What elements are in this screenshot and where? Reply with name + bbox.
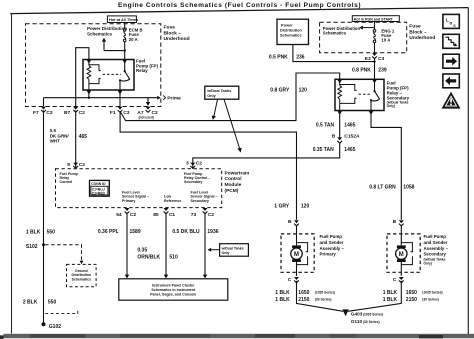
wire fuse to E3 connector [374, 43, 376, 53]
svg-text:9: 9 [67, 162, 70, 168]
svg-text:Only: Only [222, 251, 230, 255]
label Power Distribution Schematics (right ref) [323, 26, 361, 36]
callout arrow to GRY wire [214, 99, 218, 117]
svg-text:2150: 2150 [406, 297, 417, 303]
connector B C152A [337, 137, 342, 143]
svg-text:1465: 1465 [344, 147, 355, 153]
svg-text:0.5 DK BLU: 0.5 DK BLU [172, 229, 200, 235]
label 0.5 DK GRN/WHT [50, 128, 70, 143]
wire pin80 to cluster (0.35 ORN/BLK 510) [165, 213, 167, 276]
svg-text:0.35 TAN: 0.35 TAN [313, 147, 334, 153]
wire: Hot-at-all-times feed to ECM B fuse [124, 23, 126, 30]
arrow up to Power Distribution Schematics [103, 41, 105, 51]
fuel pump and sender assembly primary (dashed enclosure) [281, 234, 314, 272]
svg-text:Reference: Reference [164, 199, 181, 203]
w/Dual Tanks Only callout box [205, 86, 239, 99]
svg-text:CONN ID: CONN ID [91, 182, 106, 186]
PCM label Fuel Pump Relay Control - Secondary [184, 172, 210, 184]
wire relay2 switch to secondary pump (0.8 LT GRN 1058) [371, 111, 401, 220]
svg-text:Fuel Pump: Fuel Pump [320, 234, 343, 239]
wire: branch to power distribution arrow [104, 50, 125, 52]
relay2 switch contacts [371, 79, 380, 110]
svg-text:Fuel Pump: Fuel Pump [424, 234, 447, 239]
svg-text:Block –: Block – [409, 29, 427, 35]
toolbar icon: warning triangle [442, 92, 461, 109]
svg-text:(30 Series): (30 Series) [422, 298, 439, 302]
label Fuel Pump (FP) Relay [136, 58, 158, 73]
svg-text:Powertrain: Powertrain [225, 170, 250, 176]
svg-text:0.8 LT GRN: 0.8 LT GRN [369, 185, 396, 191]
label ENG 1 Fuse 10 A [381, 28, 395, 42]
label Hot in RUN and START [352, 16, 399, 22]
svg-text:Control: Control [60, 180, 73, 184]
label Hot at All Times [107, 16, 138, 23]
bottom scroll band [4, 334, 474, 338]
svg-text:Relay: Relay [136, 68, 148, 73]
svg-text:1 BLK: 1 BLK [383, 297, 398, 303]
label Fuel Pump (FP) Relay - Secondary [387, 81, 410, 101]
svg-text:C2=RED: C2=RED [92, 192, 106, 196]
svg-text:Only: Only [207, 94, 216, 98]
svg-text:Secondary: Secondary [424, 252, 447, 257]
svg-text:1589: 1589 [130, 229, 141, 235]
node Prime [163, 96, 165, 100]
svg-text:Only): Only) [387, 104, 395, 108]
PCM label Fuel Pump Relay Control [60, 172, 79, 184]
w/Dual Tanks Only callout (pin 73) [220, 244, 249, 257]
svg-text:3: 3 [186, 161, 189, 167]
svg-text:Hot in RUN and START: Hot in RUN and START [354, 17, 394, 21]
svg-text:Assembly –: Assembly – [320, 246, 345, 251]
svg-text:C3: C3 [378, 56, 385, 62]
svg-text:(30 Series): (30 Series) [315, 298, 332, 302]
wire primary pump to ground [297, 281, 344, 312]
label Fuel Pump and Sender Assembly - Primary [320, 234, 345, 256]
svg-text:0.35: 0.35 [137, 248, 147, 254]
PCM label Fuel Level Sensor Signal - Secondary [191, 190, 218, 202]
connector F7 C2 [41, 107, 46, 113]
connector A7 C2 (not used) [146, 107, 151, 113]
connector F1 C3 [118, 107, 123, 113]
ground G102 [42, 322, 46, 326]
motor M2 [397, 245, 406, 248]
relay pin arrows (bottom) [87, 91, 92, 95]
wire F1 branch to primary pump (1 GRY 120) [120, 111, 296, 219]
PCM powertrain control module (dashed enclosure) [56, 169, 222, 208]
svg-text:1 BLK: 1 BLK [275, 290, 290, 296]
svg-text:Schematics: Schematics [87, 31, 113, 36]
svg-text:239: 239 [378, 68, 387, 74]
wire B7 wrap: coil pin up over left side down to B7 [76, 48, 89, 107]
svg-text:(30 Series): (30 Series) [363, 320, 380, 324]
svg-text:1650: 1650 [298, 290, 309, 296]
svg-text:(1035 Series): (1035 Series) [315, 291, 335, 295]
connector pin 9 C2 [73, 163, 78, 169]
svg-text:G403: G403 [351, 312, 363, 317]
svg-text:Panel, Gages, and Console: Panel, Gages, and Console [150, 292, 196, 296]
wire into pump M2 [400, 225, 402, 246]
wire pin54 to cluster (0.36 PPL 1589) [126, 213, 128, 276]
wire switch bottom to F1 [119, 90, 121, 106]
svg-text:10 A: 10 A [381, 38, 390, 43]
relay2 pin arrows top [337, 80, 342, 84]
svg-text:B: B [288, 219, 292, 225]
connector B7 C2 [73, 107, 78, 113]
junction at fuse branch [124, 49, 126, 51]
page border left [11, 14, 13, 334]
svg-text:(PCM): (PCM) [225, 188, 239, 194]
wire S102 to G102 (2 BLK 550) [43, 245, 45, 323]
label Fuse Block - Underhood (right) [409, 24, 435, 42]
svg-text:1 BLK: 1 BLK [383, 290, 398, 296]
wire F1 branch to relay2 coil (0.8 GRY 120) [120, 73, 340, 121]
label Power Distribution Schematics (left ref) [87, 26, 127, 36]
svg-text:Secondary: Secondary [191, 199, 209, 203]
connector pin 80 C1 [164, 208, 169, 214]
wire: fuse output down to relay switch [124, 42, 126, 60]
PCM label Fuel Level Sensor Signal - Primary [122, 190, 149, 202]
svg-text:Schematics: Schematics [72, 278, 92, 282]
fuse block underhood (left, dashed enclosure) [26, 24, 161, 107]
svg-text:Ground: Ground [75, 269, 88, 273]
svg-text:C152A: C152A [344, 134, 360, 140]
svg-text:and Sender: and Sender [320, 240, 344, 245]
svg-text:and Sender: and Sender [424, 240, 448, 245]
wire A7 stub (not used) [147, 98, 149, 103]
svg-text:1936: 1936 [207, 229, 218, 235]
svg-text:(1035 Series): (1035 Series) [363, 312, 383, 316]
svg-text:C2: C2 [130, 212, 137, 218]
wire pin73 to cluster (0.5 DK BLU 1936) [204, 213, 206, 276]
svg-text:B7: B7 [64, 110, 71, 116]
svg-text:C1: C1 [169, 212, 176, 218]
svg-text:ORN/BLK: ORN/BLK [137, 254, 160, 260]
svg-text:C2: C2 [46, 110, 53, 116]
PCM label Low Reference [164, 195, 181, 203]
toolbar icon: zoom LOC button [443, 14, 459, 28]
svg-text:Fuse: Fuse [164, 25, 176, 31]
toolbar icon: next arrow button [443, 54, 459, 68]
wire motor2 to C connector [400, 262, 402, 276]
svg-text:0.8 GRY: 0.8 GRY [270, 87, 290, 93]
junction coil/rail [88, 97, 90, 99]
wire: hot feed into ENG1 fuse [374, 22, 376, 31]
svg-text:1465: 1465 [344, 122, 355, 128]
svg-text:F7: F7 [33, 110, 39, 116]
fuel sender bracket (primary) [297, 243, 308, 252]
relay2 pin arrows bottom [337, 111, 342, 115]
svg-text:80: 80 [153, 212, 159, 218]
wire motor to C connector [296, 262, 298, 276]
prime rail wire [44, 97, 158, 99]
connector E3 C3 [372, 53, 377, 59]
svg-text:Schematics: Schematics [323, 31, 347, 36]
wire into pump M1 [296, 225, 298, 246]
motor M1 [292, 245, 301, 248]
arrow from fuse to power distribution ref [363, 27, 375, 29]
svg-text:o: o [450, 20, 453, 25]
power distribution schematics reference box [277, 19, 309, 44]
svg-text:1 GRY: 1 GRY [274, 204, 289, 210]
svg-text:Schematics: Schematics [280, 32, 302, 37]
svg-text:510: 510 [169, 254, 178, 260]
dashed reference to ground distribution [45, 245, 81, 261]
wire C152A to PCM pin 3 (0.35 TAN 1465) [193, 142, 340, 168]
svg-text:1650: 1650 [406, 290, 417, 296]
svg-text:G110: G110 [351, 319, 363, 324]
svg-text:0.8 PNK: 0.8 PNK [352, 68, 371, 74]
svg-text:Distribution: Distribution [71, 273, 91, 277]
svg-text:2150: 2150 [298, 297, 309, 303]
svg-text:1058: 1058 [403, 185, 414, 191]
svg-text:Fuse: Fuse [409, 24, 421, 30]
wire F7 ground drop (1 BLK 550) [43, 111, 45, 245]
wire rail down to F7 [43, 98, 45, 107]
svg-text:(1035 Series): (1035 Series) [422, 291, 442, 295]
svg-text:0.36 PPL: 0.36 PPL [98, 229, 119, 235]
svg-text:Prime: Prime [167, 96, 181, 102]
label ECM B Fuse 20 A [129, 28, 143, 42]
svg-text:Block –: Block – [164, 30, 182, 36]
svg-text:Control: Control [225, 176, 242, 182]
svg-text:S102: S102 [26, 244, 38, 250]
label Fuse Block - Underhood (left) [164, 25, 190, 43]
fuel sender bracket (secondary) [401, 243, 412, 252]
wire coil bottom to prime rail [88, 90, 90, 98]
svg-text:1 BLK: 1 BLK [275, 297, 290, 303]
svg-text:Primary: Primary [122, 199, 135, 203]
relay U1 Fuel Pump (FP) Relay box [83, 60, 134, 91]
svg-text:(not used): (not used) [139, 115, 154, 119]
ground distribution schematics box (dashed) [67, 264, 97, 286]
junction pnk [373, 60, 375, 62]
svg-text:1 BLK: 1 BLK [26, 229, 41, 235]
splice S102 [42, 243, 45, 246]
PCM conn id table [90, 180, 110, 196]
svg-text:C2: C2 [79, 162, 86, 168]
dashed reference from G102 wire [45, 310, 78, 313]
svg-text:M: M [399, 252, 404, 258]
svg-text:73: 73 [191, 212, 197, 218]
svg-text:120: 120 [299, 87, 308, 93]
wire relay2 coil to C152A (0.5 TAN 1465) [339, 111, 341, 138]
svg-text:w/Dual Tanks: w/Dual Tanks [221, 246, 244, 250]
connector pin 73 C2 [203, 208, 208, 214]
svg-text:M: M [294, 252, 299, 258]
label Powertrain Control Module (PCM) [225, 170, 250, 193]
wire B7 to PCM pin 9 (0.5 DK GRN/WHT 465) [75, 111, 77, 169]
svg-text:54: 54 [116, 212, 122, 218]
svg-text:0.5 PNK: 0.5 PNK [269, 54, 288, 60]
svg-text:Only): Only) [424, 261, 432, 265]
relay switch contacts [120, 60, 130, 91]
svg-text:w/Dual Tanks: w/Dual Tanks [206, 89, 231, 93]
svg-text:0.5 TAN: 0.5 TAN [316, 122, 335, 128]
svg-text:Hot at All Times: Hot at All Times [109, 17, 138, 22]
svg-text:c: c [453, 23, 456, 28]
svg-text:B: B [332, 134, 336, 140]
wire E3 down to relay, 0.8 PNK 239 [374, 58, 376, 80]
relay U2 Fuel Pump (FP) Relay - Secondary box [335, 79, 384, 110]
svg-text:Secondary: Secondary [184, 180, 202, 184]
svg-text:C: C [288, 277, 292, 283]
fuse ENG 1 10A [373, 30, 376, 43]
svg-text:550: 550 [48, 300, 57, 306]
relay2 contact dashed actuator [359, 93, 371, 95]
fuse ECM B 20A [123, 29, 126, 42]
svg-text:Primary: Primary [320, 252, 337, 257]
svg-text:Underhood: Underhood [164, 36, 190, 42]
svg-text:C3: C3 [123, 110, 130, 116]
connector pin 3 C2 [190, 163, 195, 169]
svg-text:Schematics in Instrument: Schematics in Instrument [151, 288, 196, 292]
svg-text:236: 236 [296, 54, 305, 60]
wire 0.5 PNK 236 from power distribution box [293, 45, 375, 62]
svg-text:G102: G102 [49, 324, 61, 330]
svg-text:C2: C2 [79, 110, 86, 116]
svg-text:C: C [393, 277, 397, 283]
label Fuel Pump and Sender Assembly - Secondary [424, 234, 449, 256]
fuse block underhood (right, dashed enclosure) [320, 22, 407, 53]
wire secondary pump to ground [348, 281, 401, 312]
svg-text:Underhood: Underhood [409, 35, 435, 41]
instrument panel cluster reference box [119, 279, 228, 300]
svg-text:C2: C2 [196, 161, 203, 167]
svg-text:20 A: 20 A [129, 37, 138, 42]
svg-text:465: 465 [79, 134, 88, 140]
svg-text:120: 120 [301, 204, 310, 210]
svg-text:2 BLK: 2 BLK [23, 300, 38, 306]
toolbar icon: prev arrow button [443, 74, 459, 88]
relay coil K1 [87, 60, 101, 91]
relay2 coil K2 [338, 79, 357, 110]
callout arrow to DK BLU wire [211, 249, 220, 251]
svg-text:WHT: WHT [50, 138, 60, 143]
svg-text:B: B [393, 219, 397, 225]
page border right [467, 8, 469, 335]
page border top [10, 8, 468, 14]
svg-text:550: 550 [47, 229, 56, 235]
ground G403 / G110 [342, 309, 348, 316]
fuel pump and sender assembly secondary (dashed enclosure) [387, 234, 420, 272]
svg-text:Module: Module [225, 182, 242, 188]
prime rail exit arrow [157, 96, 160, 100]
callout arrow to TAN wire [224, 99, 240, 149]
svg-text:F1: F1 [110, 110, 116, 116]
relay pin arrows (top) [87, 60, 92, 64]
connector pin 54 C2 [125, 208, 130, 214]
relay contact dashed actuator [103, 73, 121, 75]
toolbar icon: steps button [443, 34, 459, 48]
svg-text:Engine Controls Schematics (Fu: Engine Controls Schematics (Fuel Control… [118, 2, 361, 9]
svg-text:Assembly –: Assembly – [424, 246, 449, 251]
svg-text:C2: C2 [208, 212, 215, 218]
svg-text:Instrument Panel Cluster: Instrument Panel Cluster [152, 284, 195, 288]
